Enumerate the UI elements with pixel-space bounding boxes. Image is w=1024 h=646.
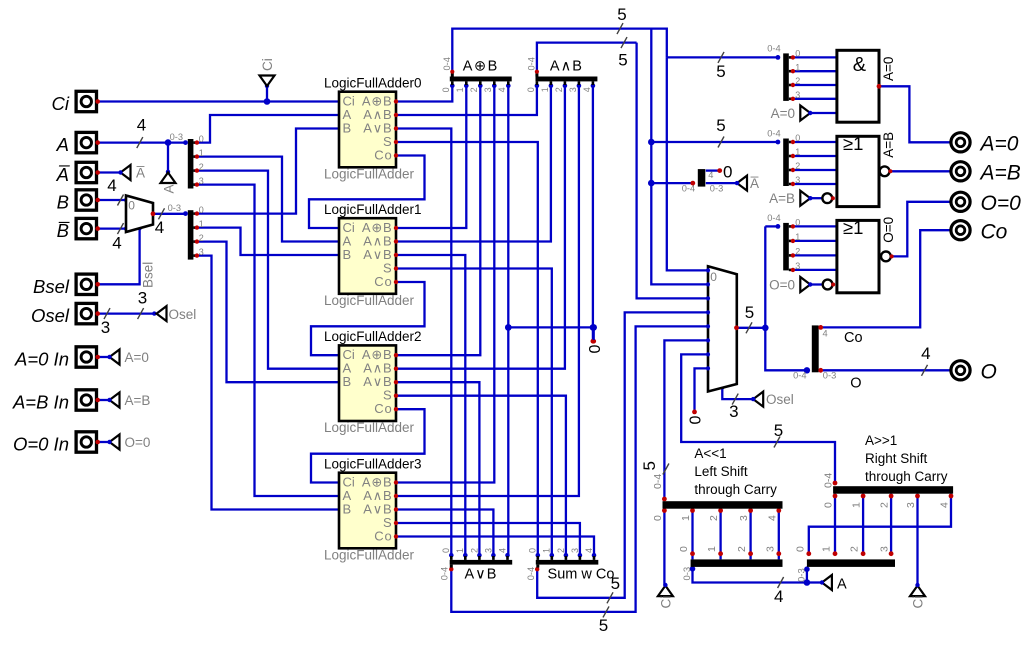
svg-text:2: 2 — [708, 515, 720, 521]
svg-text:0: 0 — [795, 49, 800, 59]
svg-text:2: 2 — [199, 233, 204, 243]
svg-text:0-4: 0-4 — [652, 474, 664, 489]
svg-text:A∧B: A∧B — [550, 59, 583, 75]
svg-text:B: B — [343, 374, 352, 389]
svg-text:A=0: A=0 — [881, 57, 896, 81]
svg-text:Co: Co — [981, 221, 1008, 244]
svg-text:O=0: O=0 — [125, 435, 151, 450]
svg-text:≥1: ≥1 — [843, 217, 863, 238]
svg-text:1: 1 — [199, 219, 204, 229]
svg-text:0: 0 — [199, 205, 204, 215]
svg-text:Right Shift: Right Shift — [865, 451, 928, 466]
svg-text:3: 3 — [795, 261, 800, 271]
svg-text:0: 0 — [723, 163, 732, 182]
svg-text:Osel: Osel — [766, 392, 794, 407]
svg-text:0: 0 — [441, 548, 451, 553]
svg-text:2: 2 — [795, 161, 800, 171]
svg-text:1: 1 — [821, 546, 833, 552]
svg-text:A: A — [56, 134, 69, 155]
svg-text:2: 2 — [736, 546, 748, 552]
svg-text:0-3: 0-3 — [170, 132, 183, 142]
svg-text:4: 4 — [939, 502, 951, 508]
svg-text:2: 2 — [849, 546, 861, 552]
svg-text:through Carry: through Carry — [865, 469, 948, 484]
svg-text:2: 2 — [556, 548, 566, 553]
svg-text:0-4: 0-4 — [439, 567, 449, 580]
svg-text:0-4: 0-4 — [527, 57, 537, 70]
svg-text:4: 4 — [107, 176, 116, 195]
svg-text:O=0: O=0 — [769, 278, 795, 293]
svg-text:0: 0 — [587, 345, 604, 354]
svg-text:1: 1 — [542, 548, 552, 553]
svg-text:4: 4 — [497, 87, 507, 92]
svg-text:0: 0 — [528, 548, 538, 553]
svg-text:B: B — [343, 247, 352, 262]
svg-text:1: 1 — [795, 232, 800, 242]
svg-text:Sum w Co: Sum w Co — [548, 567, 615, 583]
svg-text:A=0: A=0 — [125, 350, 149, 365]
svg-text:5: 5 — [745, 303, 754, 322]
svg-text:A⊕B: A⊕B — [463, 59, 499, 75]
svg-text:0-3: 0-3 — [168, 203, 181, 213]
svg-text:Bsel: Bsel — [33, 276, 70, 297]
svg-text:1: 1 — [795, 147, 800, 157]
svg-text:5: 5 — [640, 461, 659, 470]
svg-text:≥1: ≥1 — [843, 133, 863, 154]
svg-text:A=B: A=B — [769, 191, 795, 206]
svg-text:2: 2 — [469, 548, 479, 553]
svg-text:B̅: B̅ — [57, 220, 70, 241]
svg-text:4: 4 — [584, 548, 594, 553]
svg-text:LogicFullAdder: LogicFullAdder — [324, 547, 415, 562]
svg-text:5: 5 — [611, 574, 620, 593]
svg-text:5: 5 — [716, 116, 725, 135]
svg-text:3: 3 — [483, 87, 493, 92]
svg-text:3: 3 — [101, 318, 110, 337]
svg-text:0-4: 0-4 — [767, 43, 780, 53]
svg-text:0-3: 0-3 — [796, 568, 807, 582]
svg-text:0: 0 — [795, 218, 800, 228]
svg-text:A̅: A̅ — [136, 166, 145, 181]
svg-text:3: 3 — [729, 402, 738, 421]
svg-text:0: 0 — [678, 546, 690, 552]
svg-text:A=B: A=B — [125, 393, 151, 408]
svg-text:1: 1 — [455, 548, 465, 553]
svg-text:0: 0 — [128, 199, 135, 213]
svg-text:O=0: O=0 — [881, 217, 896, 243]
svg-text:0-4: 0-4 — [767, 129, 780, 139]
svg-text:3: 3 — [483, 548, 493, 553]
svg-text:Co: Co — [374, 274, 392, 289]
svg-text:5: 5 — [716, 62, 725, 81]
svg-text:2: 2 — [795, 247, 800, 257]
svg-text:A=0: A=0 — [979, 133, 1019, 156]
svg-text:3: 3 — [795, 175, 800, 185]
svg-text:LogicFullAdder: LogicFullAdder — [324, 293, 415, 308]
svg-text:0: 0 — [794, 546, 806, 552]
svg-text:0: 0 — [795, 133, 800, 143]
svg-text:4: 4 — [155, 218, 164, 237]
svg-text:A̅: A̅ — [750, 176, 759, 191]
svg-text:O: O — [850, 375, 861, 391]
svg-text:0-4: 0-4 — [793, 371, 806, 381]
svg-text:LogicFullAdder2: LogicFullAdder2 — [324, 329, 422, 344]
svg-text:Ci: Ci — [659, 596, 674, 609]
svg-text:0: 0 — [710, 270, 717, 284]
svg-text:0: 0 — [526, 87, 536, 92]
svg-text:3: 3 — [738, 515, 750, 521]
svg-text:0-3: 0-3 — [710, 184, 723, 194]
svg-text:B: B — [57, 192, 69, 213]
svg-text:1: 1 — [455, 87, 465, 92]
svg-text:B: B — [343, 120, 352, 135]
svg-text:0-4: 0-4 — [767, 213, 780, 223]
svg-text:A: A — [162, 184, 177, 193]
svg-text:1: 1 — [680, 515, 692, 521]
svg-text:Ci: Ci — [260, 58, 275, 71]
svg-text:Co: Co — [844, 330, 863, 346]
svg-text:4: 4 — [112, 234, 121, 253]
svg-text:A<<1: A<<1 — [694, 446, 726, 461]
svg-text:3: 3 — [570, 548, 580, 553]
svg-text:4: 4 — [137, 116, 146, 135]
svg-text:through Carry: through Carry — [694, 482, 777, 497]
svg-text:LogicFullAdder1: LogicFullAdder1 — [324, 202, 422, 217]
svg-text:Left Shift: Left Shift — [694, 464, 748, 479]
svg-text:0-4: 0-4 — [526, 567, 536, 580]
svg-text:4: 4 — [823, 329, 828, 339]
svg-text:1: 1 — [795, 62, 800, 72]
svg-text:LogicFullAdder: LogicFullAdder — [324, 166, 415, 181]
svg-text:4: 4 — [774, 587, 783, 606]
svg-text:1: 1 — [540, 87, 550, 92]
svg-text:Ci: Ci — [911, 596, 926, 609]
svg-text:0: 0 — [688, 416, 705, 425]
svg-text:0-3: 0-3 — [823, 371, 836, 381]
svg-text:LogicFullAdder3: LogicFullAdder3 — [324, 457, 422, 472]
svg-text:0-4: 0-4 — [823, 473, 835, 488]
svg-text:A̅: A̅ — [56, 164, 71, 185]
svg-text:A=B In: A=B In — [12, 392, 69, 413]
svg-text:3: 3 — [879, 546, 891, 552]
svg-text:5: 5 — [774, 421, 783, 440]
svg-text:O: O — [981, 361, 997, 384]
svg-text:LogicFullAdder: LogicFullAdder — [324, 420, 415, 435]
svg-text:3: 3 — [199, 176, 204, 186]
svg-text:3: 3 — [568, 87, 578, 92]
svg-text:3: 3 — [795, 90, 800, 100]
svg-text:5: 5 — [599, 616, 608, 635]
svg-text:Co: Co — [374, 528, 392, 543]
svg-text:LogicFullAdder0: LogicFullAdder0 — [324, 76, 422, 91]
svg-text:2: 2 — [879, 502, 891, 508]
svg-text:2: 2 — [469, 87, 479, 92]
svg-text:A=0: A=0 — [771, 106, 795, 121]
svg-text:0-3: 0-3 — [682, 567, 693, 581]
svg-text:Co: Co — [374, 401, 392, 416]
svg-text:Bsel: Bsel — [140, 262, 155, 288]
svg-text:0: 0 — [199, 134, 204, 144]
svg-text:&: & — [853, 54, 867, 76]
svg-text:1: 1 — [851, 502, 863, 508]
svg-text:2: 2 — [199, 162, 204, 172]
svg-text:A: A — [837, 577, 847, 593]
svg-text:A=B: A=B — [979, 162, 1021, 185]
svg-text:A∨B: A∨B — [465, 567, 498, 583]
svg-text:2: 2 — [554, 87, 564, 92]
svg-text:4: 4 — [708, 170, 713, 180]
svg-text:0-4: 0-4 — [442, 57, 452, 70]
svg-text:A=B: A=B — [881, 132, 896, 158]
svg-text:2: 2 — [795, 76, 800, 86]
svg-text:3: 3 — [138, 289, 147, 308]
svg-text:3: 3 — [199, 247, 204, 257]
svg-text:3: 3 — [764, 546, 776, 552]
svg-text:0: 0 — [823, 502, 835, 508]
svg-text:3: 3 — [905, 502, 917, 508]
svg-text:0: 0 — [441, 87, 451, 92]
svg-text:5: 5 — [617, 5, 626, 24]
svg-text:A>>1: A>>1 — [865, 433, 897, 448]
svg-text:Osel: Osel — [169, 307, 197, 322]
svg-text:4: 4 — [921, 344, 930, 363]
svg-text:0: 0 — [652, 515, 664, 521]
svg-text:5: 5 — [618, 51, 627, 70]
svg-text:Ci: Ci — [52, 93, 70, 114]
svg-text:1: 1 — [706, 546, 718, 552]
svg-text:Co: Co — [374, 147, 392, 162]
svg-text:1: 1 — [199, 148, 204, 158]
svg-text:B: B — [343, 501, 352, 516]
svg-text:A=0 In: A=0 In — [14, 349, 69, 370]
svg-text:Osel: Osel — [31, 305, 70, 326]
svg-text:O=0 In: O=0 In — [13, 434, 69, 455]
svg-text:4: 4 — [497, 548, 507, 553]
svg-text:4: 4 — [766, 515, 778, 521]
svg-text:O=0: O=0 — [981, 192, 1022, 215]
svg-text:4: 4 — [582, 87, 592, 92]
